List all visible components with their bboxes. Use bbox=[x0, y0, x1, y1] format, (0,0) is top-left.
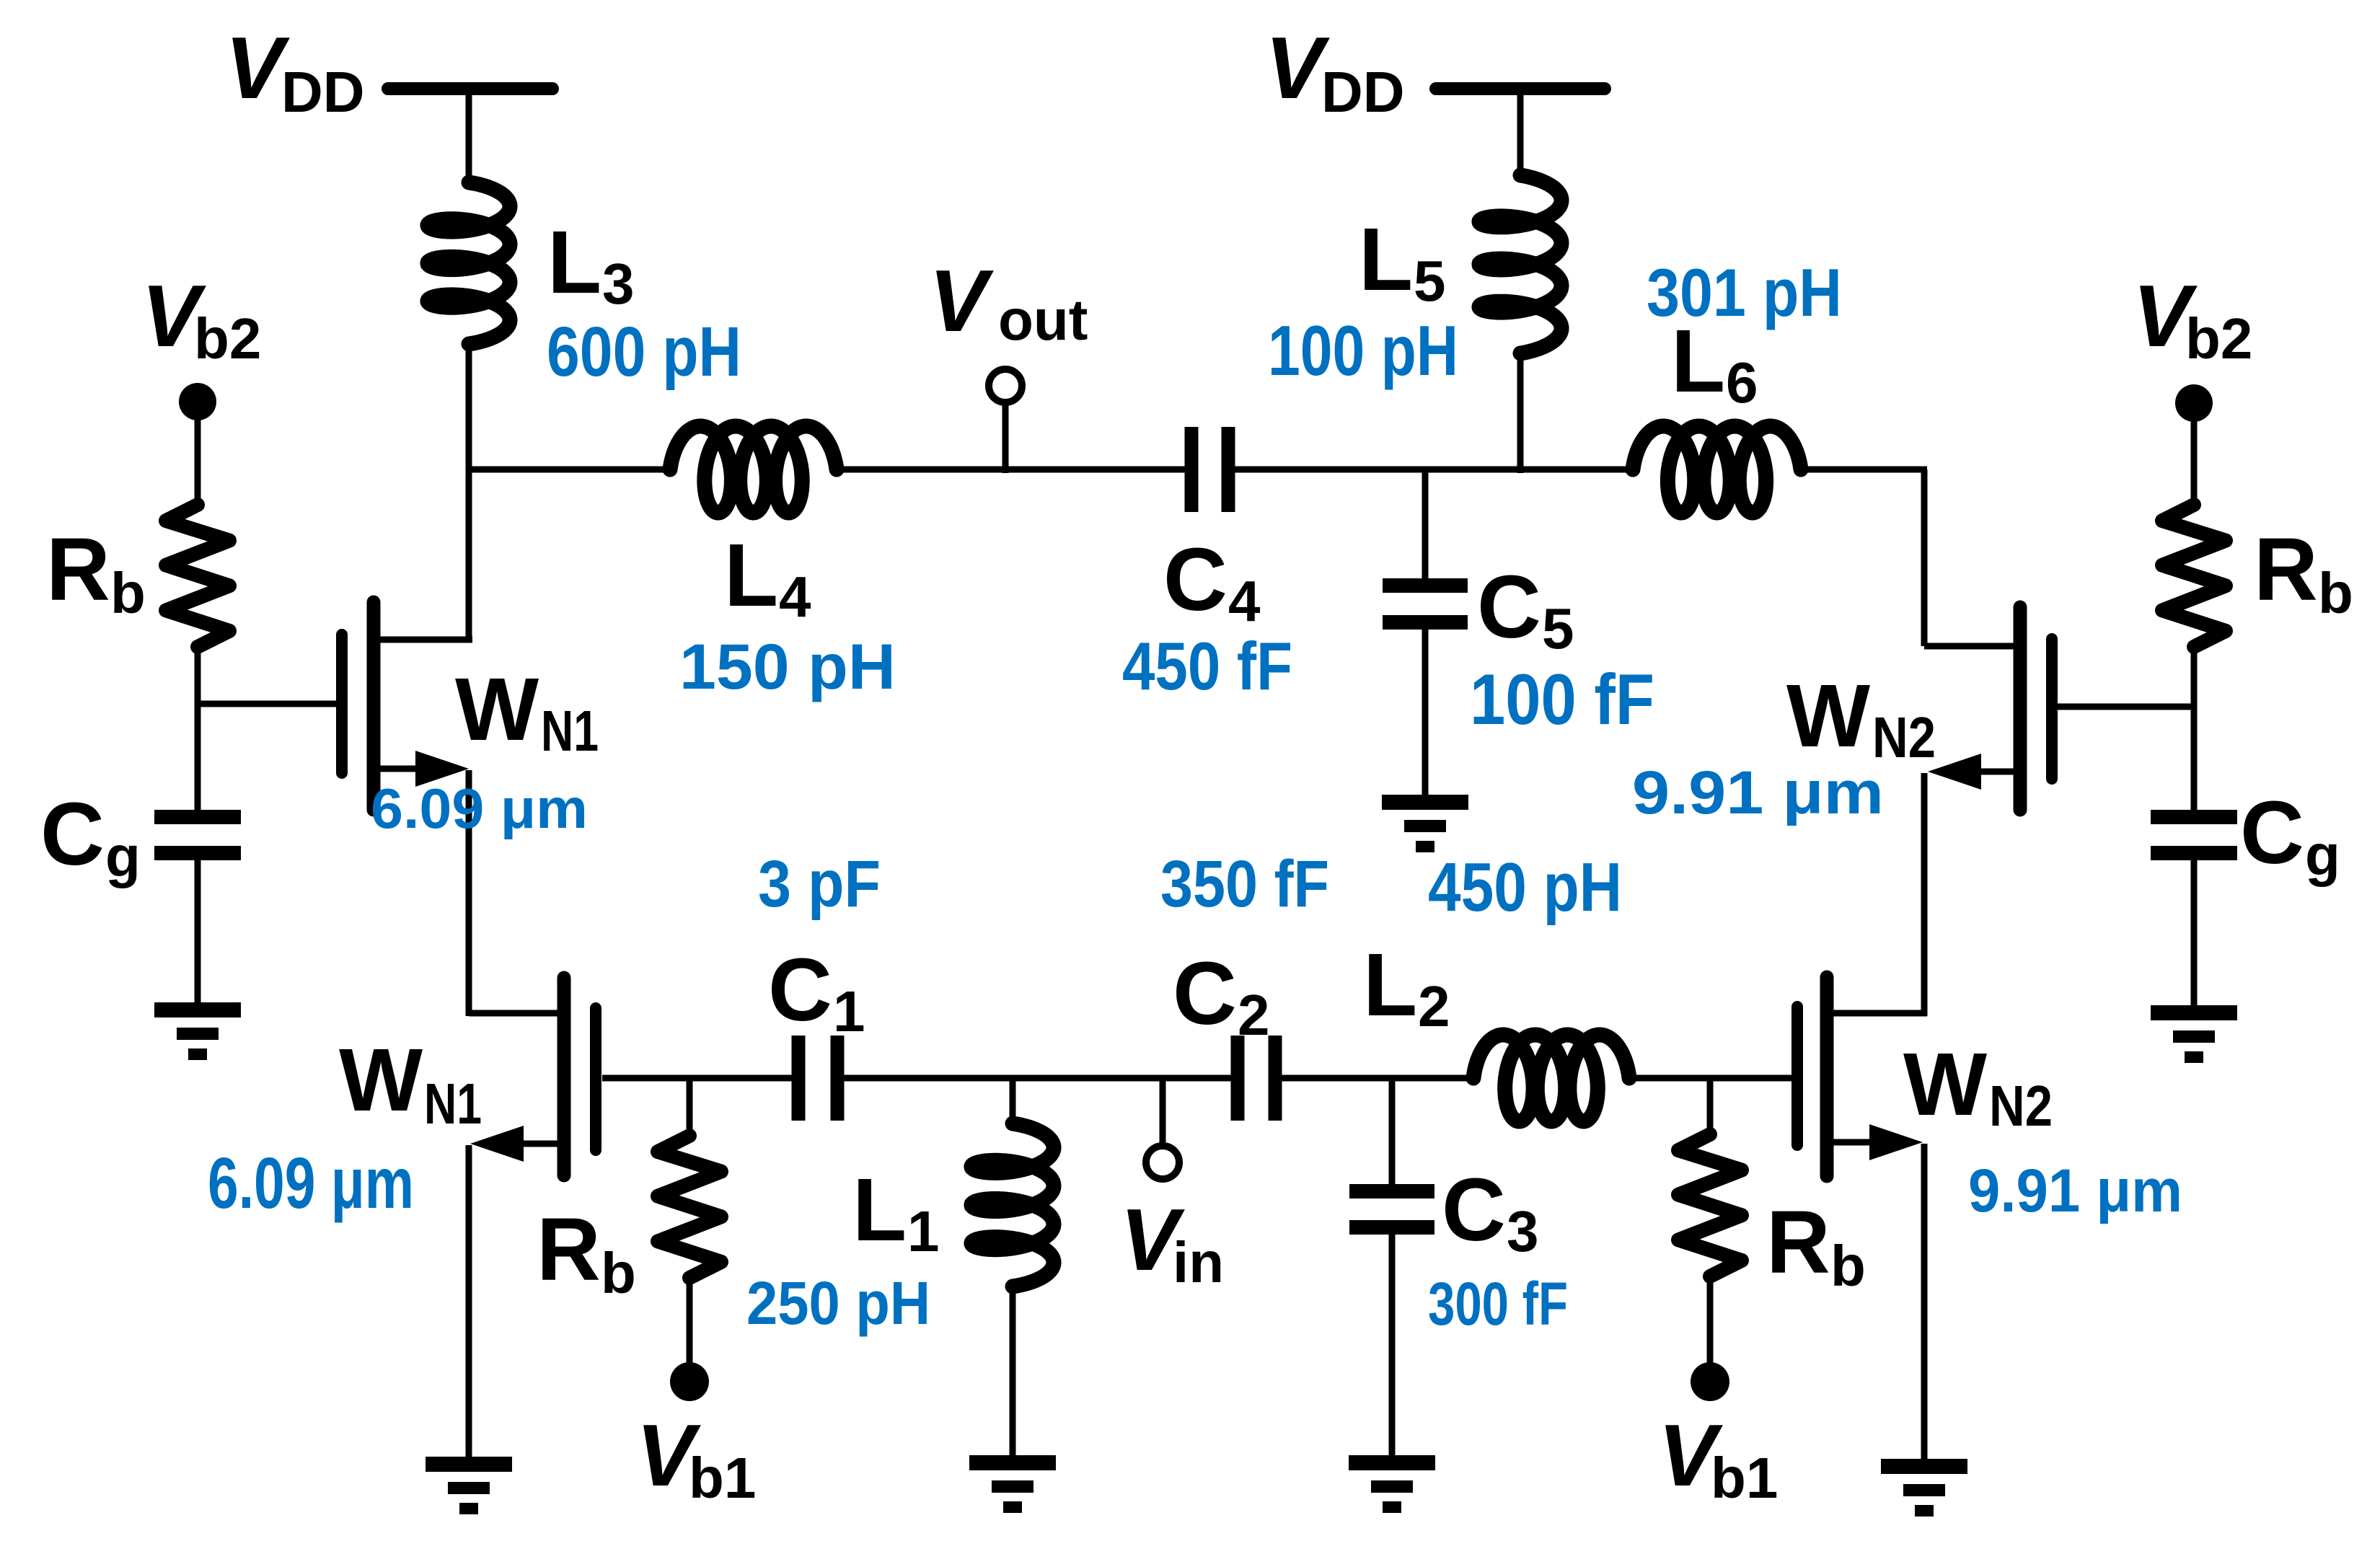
svg-text:C: C bbox=[768, 941, 832, 1040]
svg-text:N2: N2 bbox=[1989, 1074, 2053, 1138]
svg-text:b1: b1 bbox=[689, 1446, 756, 1510]
svg-text:3: 3 bbox=[602, 252, 635, 316]
svg-text:1: 1 bbox=[833, 979, 865, 1043]
svg-text:C: C bbox=[1442, 1161, 1506, 1260]
svg-text:C: C bbox=[1173, 945, 1237, 1043]
svg-text:R: R bbox=[46, 521, 110, 619]
svg-text:L: L bbox=[547, 213, 601, 312]
svg-text:9.91 μm: 9.91 μm bbox=[1632, 759, 1884, 826]
svg-text:V: V bbox=[225, 19, 290, 117]
svg-text:250 pH: 250 pH bbox=[746, 1269, 930, 1337]
svg-text:b: b bbox=[110, 561, 146, 625]
svg-text:6: 6 bbox=[1726, 350, 1758, 415]
svg-text:V: V bbox=[1265, 19, 1330, 117]
svg-text:b2: b2 bbox=[2185, 306, 2252, 371]
svg-text:DD: DD bbox=[1321, 60, 1405, 124]
svg-text:N1: N1 bbox=[541, 699, 599, 763]
svg-text:3 pF: 3 pF bbox=[758, 847, 881, 921]
svg-text:5: 5 bbox=[1542, 596, 1574, 661]
svg-text:100 fF: 100 fF bbox=[1470, 659, 1654, 739]
svg-text:g: g bbox=[2305, 823, 2340, 887]
svg-text:C: C bbox=[2240, 784, 2304, 883]
svg-text:b: b bbox=[601, 1241, 636, 1305]
svg-text:W: W bbox=[1786, 667, 1870, 766]
svg-text:out: out bbox=[998, 288, 1088, 352]
svg-text:L: L bbox=[1363, 936, 1417, 1035]
svg-text:5: 5 bbox=[1414, 249, 1446, 313]
svg-text:450 pH: 450 pH bbox=[1428, 849, 1622, 926]
svg-text:9.91 μm: 9.91 μm bbox=[1968, 1157, 2182, 1224]
svg-text:b: b bbox=[2318, 561, 2353, 625]
svg-text:1: 1 bbox=[907, 1199, 940, 1263]
svg-text:b1: b1 bbox=[1711, 1446, 1778, 1510]
svg-text:in: in bbox=[1173, 1230, 1224, 1294]
svg-text:R: R bbox=[2254, 521, 2318, 619]
svg-text:C: C bbox=[1477, 558, 1541, 657]
svg-text:b: b bbox=[1830, 1234, 1866, 1298]
svg-text:300 fF: 300 fF bbox=[1428, 1270, 1568, 1338]
svg-text:C: C bbox=[1163, 531, 1228, 630]
svg-text:W: W bbox=[339, 1031, 423, 1130]
svg-text:DD: DD bbox=[281, 60, 365, 124]
svg-text:R: R bbox=[537, 1201, 601, 1299]
svg-text:R: R bbox=[1766, 1193, 1830, 1292]
svg-text:W: W bbox=[1903, 1036, 1987, 1134]
svg-text:W: W bbox=[455, 661, 539, 759]
svg-text:4: 4 bbox=[779, 565, 811, 629]
svg-text:N1: N1 bbox=[424, 1072, 482, 1136]
svg-text:4: 4 bbox=[1228, 569, 1261, 633]
svg-text:6.09 μm: 6.09 μm bbox=[208, 1143, 414, 1224]
svg-text:L: L bbox=[1359, 211, 1413, 309]
svg-text:V: V bbox=[929, 252, 994, 350]
svg-text:g: g bbox=[105, 824, 141, 888]
svg-text:100 pH: 100 pH bbox=[1268, 311, 1458, 390]
svg-text:600 pH: 600 pH bbox=[547, 312, 741, 391]
svg-text:2: 2 bbox=[1238, 983, 1270, 1047]
svg-text:b2: b2 bbox=[194, 306, 261, 371]
svg-text:2: 2 bbox=[1418, 974, 1450, 1038]
svg-text:L: L bbox=[852, 1161, 907, 1260]
svg-text:350 fF: 350 fF bbox=[1160, 847, 1329, 921]
svg-text:C: C bbox=[40, 785, 105, 884]
svg-text:L: L bbox=[1671, 312, 1725, 411]
svg-text:450 fF: 450 fF bbox=[1122, 628, 1292, 704]
svg-text:3: 3 bbox=[1507, 1199, 1539, 1263]
svg-text:150 pH: 150 pH bbox=[679, 630, 896, 702]
svg-text:L: L bbox=[724, 526, 778, 625]
svg-text:6.09 μm: 6.09 μm bbox=[371, 777, 588, 840]
